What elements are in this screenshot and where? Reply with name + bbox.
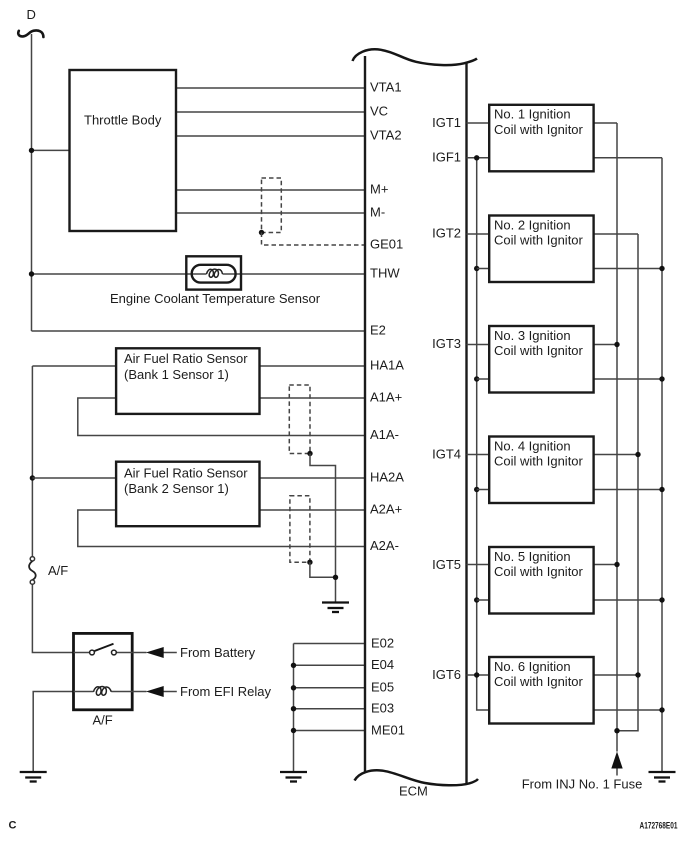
junction dot gnd coil4 bbox=[659, 487, 664, 492]
svg-text:A1A+: A1A+ bbox=[370, 390, 402, 405]
svg-text:Air Fuel Ratio Sensor: Air Fuel Ratio Sensor bbox=[124, 351, 248, 366]
wire coil4 +B bbox=[594, 454, 638, 456]
wire IGT3 bbox=[467, 344, 490, 346]
svg-text:(Bank 2 Sensor 1): (Bank 2 Sensor 1) bbox=[124, 481, 229, 496]
wire: IGF pin coil3 bbox=[477, 378, 490, 380]
ignition coil 3 box bbox=[489, 326, 593, 393]
wire: bus to Air Fuel Ratio Sensor bank2 bbox=[32, 477, 116, 479]
svg-text:No. 6 Ignition: No. 6 Ignition bbox=[494, 659, 571, 674]
svg-text:A1A-: A1A- bbox=[370, 427, 399, 442]
junction dot E04 bbox=[291, 663, 296, 668]
svg-text:IGT4: IGT4 bbox=[432, 447, 461, 462]
relay switch blade bbox=[95, 644, 114, 651]
wire A1A+ bbox=[260, 397, 366, 399]
wire coil4 ground bbox=[594, 489, 662, 491]
wire HA1A bbox=[260, 365, 366, 367]
wire E04 bbox=[294, 664, 366, 666]
ignition coil 4 box bbox=[489, 437, 593, 504]
wire coil2 ground bbox=[594, 268, 662, 270]
svg-text:From Battery: From Battery bbox=[180, 645, 256, 660]
wire IGT5 bbox=[467, 564, 490, 566]
junction dot IGF coil5 bbox=[474, 597, 479, 602]
ignition coil 2 box bbox=[489, 216, 593, 283]
ECM right edge bbox=[465, 62, 467, 785]
svg-text:D: D bbox=[27, 7, 36, 22]
svg-text:E2: E2 bbox=[370, 323, 386, 338]
junction dot shield drains bbox=[333, 575, 338, 580]
wire GE01 shield drain (dashed) bbox=[262, 233, 366, 246]
svg-text:ME01: ME01 bbox=[371, 722, 405, 737]
svg-text:E02: E02 bbox=[371, 635, 394, 650]
junction dot at Throttle Body feed bbox=[29, 148, 34, 153]
svg-text:VTA1: VTA1 bbox=[370, 80, 402, 95]
junction dot IGF coil4 bbox=[474, 487, 479, 492]
ground ECM bus bbox=[280, 772, 307, 782]
wire A2A- wrap from sensor2 bbox=[78, 510, 365, 547]
wire shield2 drain bbox=[310, 562, 336, 577]
junction dot ME01 bbox=[291, 728, 296, 733]
junction dot bus B coil6 bbox=[635, 672, 640, 677]
wire: bus to Air Fuel Ratio Sensor bank1 bbox=[32, 365, 116, 367]
wire coil1 +B to INJ bus bbox=[594, 122, 617, 124]
wire: left main bus from D down to E2 corner bbox=[31, 34, 33, 331]
ECM bottom break wave bbox=[355, 770, 479, 785]
wire E03 bbox=[294, 708, 366, 710]
wire shield1 drain to ground bus bbox=[310, 454, 336, 603]
relay coil bbox=[94, 687, 112, 696]
junction dot gnd coil3 bbox=[659, 376, 664, 381]
wire from relay to battery arrow bbox=[132, 652, 177, 654]
svg-text:THW: THW bbox=[370, 266, 400, 281]
A/F relay box bbox=[74, 633, 133, 709]
svg-text:Coil with Ignitor: Coil with Ignitor bbox=[494, 564, 584, 579]
svg-text:No. 2 Ignition: No. 2 Ignition bbox=[494, 217, 571, 232]
ground for shield drains bbox=[322, 603, 349, 613]
svg-text:A172768E01: A172768E01 bbox=[640, 821, 678, 831]
wire coil2 +B to INJ bus B bbox=[594, 233, 638, 235]
svg-text:M+: M+ bbox=[370, 182, 388, 197]
svg-text:GE01: GE01 bbox=[370, 237, 403, 252]
wire: IGF bus bbox=[477, 158, 490, 710]
svg-text:A/F: A/F bbox=[93, 713, 113, 728]
wire coil5 +B bbox=[594, 564, 617, 566]
svg-text:A2A+: A2A+ bbox=[370, 502, 402, 517]
wire stub below INJ arrow bbox=[616, 769, 618, 776]
wire coil6 +B bbox=[594, 674, 638, 676]
wire: IGF pin coil4 bbox=[477, 489, 490, 491]
wire ME01 bbox=[294, 730, 366, 732]
wire M+ bbox=[176, 189, 365, 191]
wire: IGF pin coil5 bbox=[477, 599, 490, 601]
svg-text:A/F: A/F bbox=[48, 563, 68, 578]
ECM top break wave bbox=[353, 49, 478, 65]
ignition coil 1 box bbox=[489, 105, 593, 172]
shielded cable for A1A+/A1A- bbox=[289, 385, 310, 454]
svg-text:Air Fuel Ratio Sensor: Air Fuel Ratio Sensor bbox=[124, 465, 248, 480]
svg-text:IGF1: IGF1 bbox=[432, 150, 461, 165]
svg-text:ECM: ECM bbox=[399, 784, 428, 799]
junction dot bus B coil4 bbox=[635, 452, 640, 457]
wire: INJ power bus A bbox=[616, 123, 618, 752]
thermistor coil element bbox=[207, 269, 223, 277]
ECM left edge bbox=[364, 56, 366, 772]
svg-text:IGT2: IGT2 bbox=[432, 226, 461, 241]
junction dot IGF1 bbox=[474, 155, 479, 160]
wire: INJ power bus B bbox=[617, 234, 638, 731]
A/F connector symbol bbox=[29, 557, 36, 585]
wire IGT1 bbox=[467, 122, 490, 124]
ignition coil 6 box bbox=[489, 657, 593, 724]
junction dot gnd coil6 bbox=[659, 707, 664, 712]
wire: relay coil to left ground leg bbox=[33, 692, 73, 773]
ground ignition coils bbox=[649, 772, 676, 782]
svg-text:Coil with Ignitor: Coil with Ignitor bbox=[494, 233, 584, 248]
junction dot bus A coil5 bbox=[614, 562, 619, 567]
svg-text:Coil with Ignitor: Coil with Ignitor bbox=[494, 122, 584, 137]
svg-text:Coil with Ignitor: Coil with Ignitor bbox=[494, 454, 584, 469]
junction dot IGF bus at IGT6 bbox=[474, 672, 479, 677]
svg-text:C: C bbox=[9, 820, 17, 832]
svg-text:IGT1: IGT1 bbox=[432, 115, 461, 130]
junction dot shield1 drain bbox=[307, 451, 312, 456]
svg-text:(Bank 1 Sensor 1): (Bank 1 Sensor 1) bbox=[124, 367, 229, 382]
arrow From EFI Relay bbox=[146, 686, 164, 697]
junction dot at THW bbox=[29, 271, 34, 276]
svg-text:No. 4 Ignition: No. 4 Ignition bbox=[494, 438, 571, 453]
junction dot bank2 feed bbox=[30, 475, 35, 480]
wire coil1 ground bbox=[594, 157, 662, 159]
svg-text:Coil with Ignitor: Coil with Ignitor bbox=[494, 343, 584, 358]
svg-text:IGT6: IGT6 bbox=[432, 667, 461, 682]
air fuel ratio sensor bank2 box bbox=[116, 462, 259, 527]
svg-text:HA2A: HA2A bbox=[370, 470, 404, 485]
wire IGF1 bbox=[467, 157, 490, 159]
svg-text:E03: E03 bbox=[371, 701, 394, 716]
svg-text:From EFI Relay: From EFI Relay bbox=[180, 684, 272, 699]
wire: IGF pin coil2 bbox=[477, 268, 490, 270]
wire from relay to EFI arrow bbox=[132, 691, 177, 693]
break symbol at node D bbox=[18, 30, 43, 37]
wire VC bbox=[176, 111, 365, 113]
wire A1A- wrap from sensor1 bbox=[78, 398, 365, 436]
shielded cable for A2A+/A2A- bbox=[290, 496, 310, 563]
junction dot gnd coil5 bbox=[659, 597, 664, 602]
wire coil3 +B bbox=[594, 344, 617, 346]
junction dot on shield bbox=[259, 230, 264, 235]
throttle body box bbox=[70, 70, 177, 231]
svg-text:No. 1 Ignition: No. 1 Ignition bbox=[494, 107, 571, 122]
wire HA2A bbox=[260, 477, 366, 479]
svg-text:A2A-: A2A- bbox=[370, 538, 399, 553]
svg-text:VTA2: VTA2 bbox=[370, 128, 402, 143]
svg-text:No. 3 Ignition: No. 3 Ignition bbox=[494, 328, 571, 343]
svg-text:No. 5 Ignition: No. 5 Ignition bbox=[494, 549, 571, 564]
svg-text:IGT5: IGT5 bbox=[432, 557, 461, 572]
arrow From INJ fuse bbox=[611, 752, 622, 769]
wire IGT6 bbox=[467, 674, 490, 676]
junction dot IGF coil3 bbox=[474, 376, 479, 381]
wire VTA1 bbox=[176, 87, 365, 89]
wire: bus to Throttle Body bbox=[32, 149, 70, 151]
svg-text:Throttle Body: Throttle Body bbox=[84, 113, 162, 128]
relay coil wires bbox=[74, 691, 133, 693]
wire E02 bbox=[294, 643, 366, 645]
junction dot IGF coil2 bbox=[474, 266, 479, 271]
junction dot shield2 drain bbox=[307, 560, 312, 565]
wire: ignition ground bus bbox=[661, 158, 663, 772]
wire coil5 ground bbox=[594, 599, 662, 601]
relay switch contacts bbox=[90, 650, 95, 655]
junction dot E05 bbox=[291, 685, 296, 690]
svg-text:VC: VC bbox=[370, 104, 388, 119]
wire coil6 ground bbox=[594, 709, 662, 711]
svg-text:HA1A: HA1A bbox=[370, 358, 404, 373]
engine coolant temperature sensor outer box bbox=[186, 256, 241, 289]
air fuel ratio sensor bank1 box bbox=[116, 348, 259, 414]
wire E2 to ECM bbox=[32, 330, 366, 332]
wire IGT4 bbox=[467, 454, 490, 456]
ignition coil 5 box bbox=[489, 547, 593, 614]
junction dot bus A-B join bbox=[614, 728, 619, 733]
svg-text:Engine Coolant Temperature Sen: Engine Coolant Temperature Sensor bbox=[110, 291, 321, 306]
relay switch contact wires bbox=[74, 652, 133, 654]
wire IGT2 bbox=[467, 233, 490, 235]
wire VTA2 bbox=[176, 135, 365, 137]
wire M- bbox=[176, 212, 365, 214]
ground bottom-left bbox=[20, 772, 47, 782]
arrow From Battery bbox=[146, 647, 164, 658]
svg-text:Coil with Ignitor: Coil with Ignitor bbox=[494, 674, 584, 689]
svg-text:E04: E04 bbox=[371, 657, 394, 672]
junction dot bus A coil3 bbox=[614, 342, 619, 347]
svg-text:From INJ No. 1 Fuse: From INJ No. 1 Fuse bbox=[522, 777, 643, 792]
svg-text:IGT3: IGT3 bbox=[432, 336, 461, 351]
engine coolant temperature sensor body bbox=[192, 265, 236, 283]
wire coil3 ground bbox=[594, 378, 662, 380]
wire E05 bbox=[294, 687, 366, 689]
wire: A/F power bus left (to AFR sensors and relay) bbox=[32, 366, 73, 653]
wire THW from bus to ECM bbox=[32, 273, 366, 275]
svg-text:E05: E05 bbox=[371, 680, 394, 695]
junction dot gnd coil2 bbox=[659, 266, 664, 271]
shielded cable for M+/M- bbox=[262, 178, 282, 233]
junction dot E03 bbox=[291, 706, 296, 711]
wire: ECM ground bus bbox=[293, 644, 295, 773]
svg-text:M-: M- bbox=[370, 205, 385, 220]
wire A2A+ bbox=[260, 509, 366, 511]
